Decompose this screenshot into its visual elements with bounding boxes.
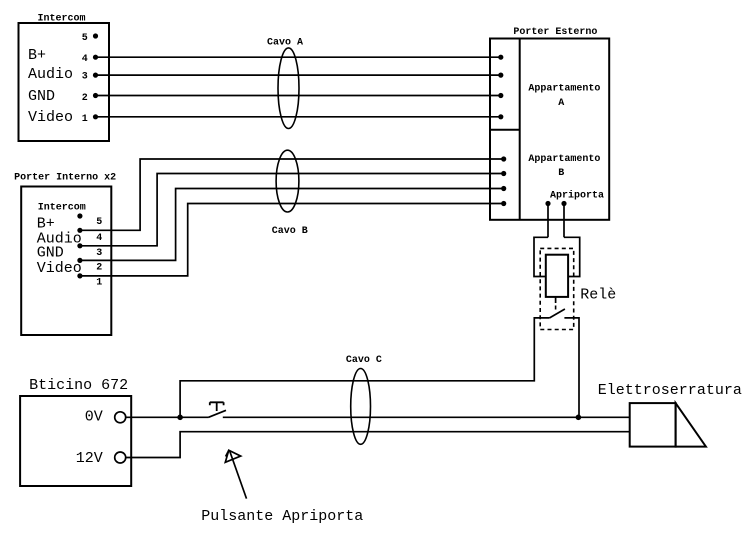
wire 0V to pushbutton xyxy=(126,416,209,418)
relay switch blade xyxy=(550,309,565,318)
svg-text:B: B xyxy=(558,168,564,179)
svg-text:0V: 0V xyxy=(85,409,103,426)
svg-text:Appartamento: Appartamento xyxy=(528,84,600,95)
pin dot 5 (lower box) xyxy=(77,213,82,218)
wire pushbutton to elettroserratura xyxy=(223,416,630,418)
terminal circle 12V xyxy=(115,452,126,463)
svg-text:2: 2 xyxy=(96,263,102,274)
relay switch right contact and wire down to lock junction xyxy=(564,318,579,417)
porter esterno lower pin dot 4 xyxy=(501,201,506,206)
porter esterno upper pin dot 4 xyxy=(498,114,503,119)
svg-text:3: 3 xyxy=(82,72,88,83)
cable sheath Cavo A ellipse xyxy=(278,48,299,129)
svg-text:GND: GND xyxy=(37,244,64,261)
svg-text:Intercom: Intercom xyxy=(38,203,86,214)
relay K1 dashed enclosure xyxy=(540,248,574,329)
svg-text:Audio: Audio xyxy=(28,66,73,83)
porter esterno upper pin dot 3 xyxy=(498,93,503,98)
relay K1 collar right xyxy=(564,237,580,276)
svg-text:12V: 12V xyxy=(76,450,103,467)
porter esterno lower pin dot 2 xyxy=(501,171,506,176)
svg-text:B+: B+ xyxy=(28,47,46,64)
wire intercom pin2 to porter esterno xyxy=(96,95,501,97)
terminal circle 0V xyxy=(115,412,126,423)
wire porter interno pin2 to porter esterno xyxy=(80,189,504,261)
pushbutton blade xyxy=(209,410,227,417)
junction dot 0V xyxy=(177,415,183,421)
intercom (top) box xyxy=(19,23,110,141)
pushbutton T actuator xyxy=(210,402,224,411)
wire intercom pin1 to porter esterno xyxy=(96,116,501,118)
wire intercom pin4 to porter esterno xyxy=(96,56,501,58)
apriporta pin dot left xyxy=(545,201,550,206)
wire intercom pin3 to porter esterno xyxy=(96,74,501,76)
pin dot 2 (top box) xyxy=(93,93,98,98)
svg-text:1: 1 xyxy=(96,278,102,289)
elettroserratura box xyxy=(630,403,676,447)
relay K1 coil xyxy=(546,255,568,297)
pin dot 4 (lower box) xyxy=(77,228,82,233)
pin dot 5 (top box) xyxy=(93,33,98,38)
pulsante apriporta arrow shaft xyxy=(230,451,247,499)
wire porter interno pin3 to porter esterno xyxy=(80,174,504,246)
porter esterno box xyxy=(490,39,609,220)
relay coil stub xyxy=(555,297,557,303)
relay mechanical link (dashed) xyxy=(555,306,557,313)
pulsante apriporta arrow head xyxy=(225,450,240,462)
porter esterno lower pin dot 3 xyxy=(501,186,506,191)
porter esterno inner divider vertical xyxy=(519,39,521,220)
apriporta pin dot right xyxy=(561,201,566,206)
pin dot 1 (lower box) xyxy=(77,273,82,278)
svg-text:Bticino 672: Bticino 672 xyxy=(29,377,128,394)
svg-text:GND: GND xyxy=(28,88,55,105)
svg-text:Intercom: Intercom xyxy=(38,14,86,25)
pin dot 4 (top box) xyxy=(93,55,98,60)
svg-text:4: 4 xyxy=(82,54,88,65)
pin dot 1 (top box) xyxy=(93,114,98,119)
svg-text:Cavo A: Cavo A xyxy=(267,38,303,49)
relay switch left contact and wire to 0V junction xyxy=(180,318,549,417)
pin dot 2 (lower box) xyxy=(77,258,82,263)
svg-text:Porter Esterno: Porter Esterno xyxy=(513,27,597,38)
svg-text:Pulsante Apriporta: Pulsante Apriporta xyxy=(201,508,363,525)
svg-text:1: 1 xyxy=(82,114,88,125)
svg-text:Apriporta: Apriporta xyxy=(550,189,604,201)
svg-text:5: 5 xyxy=(96,217,102,228)
svg-text:3: 3 xyxy=(96,248,102,259)
svg-text:Cavo B: Cavo B xyxy=(272,226,308,237)
cable sheath Cavo B ellipse xyxy=(276,150,299,212)
porter esterno inner divider horizontal xyxy=(490,129,520,131)
svg-text:Elettroserratura: Elettroserratura xyxy=(598,382,742,399)
pin dot 3 (lower box) xyxy=(77,243,82,248)
pin dot 3 (top box) xyxy=(93,73,98,78)
svg-text:Video: Video xyxy=(28,109,73,126)
relay K1 collar left xyxy=(534,237,548,276)
wire porter interno pin4 to porter esterno xyxy=(80,159,504,230)
svg-text:2: 2 xyxy=(82,93,88,104)
svg-text:Appartamento: Appartamento xyxy=(528,154,600,165)
svg-text:A: A xyxy=(558,98,564,109)
svg-text:Relè: Relè xyxy=(580,287,616,304)
pulsante apriporta arrow tip hook xyxy=(226,450,229,456)
svg-text:Cavo C: Cavo C xyxy=(346,355,382,366)
porter esterno upper pin dot 2 xyxy=(498,73,503,78)
wire apriporta left pin down to relay xyxy=(547,204,549,238)
svg-text:5: 5 xyxy=(82,33,88,44)
wire porter interno pin1 to porter esterno xyxy=(80,204,504,276)
junction dot at elettroserratura wire xyxy=(576,415,582,421)
wire 12V to elettroserratura xyxy=(126,432,630,458)
bticino 672 box xyxy=(20,396,131,486)
porter esterno lower pin dot 1 xyxy=(501,156,506,161)
svg-text:4: 4 xyxy=(96,233,102,244)
svg-text:Video: Video xyxy=(37,260,82,277)
cable sheath Cavo C ellipse xyxy=(351,369,371,445)
porter esterno upper pin dot 1 xyxy=(498,55,503,60)
porter interno box xyxy=(21,187,111,336)
elettroserratura latch triangle xyxy=(676,403,706,447)
wire apriporta right pin down to relay xyxy=(563,204,565,238)
svg-text:Porter Interno x2: Porter Interno x2 xyxy=(14,173,116,184)
